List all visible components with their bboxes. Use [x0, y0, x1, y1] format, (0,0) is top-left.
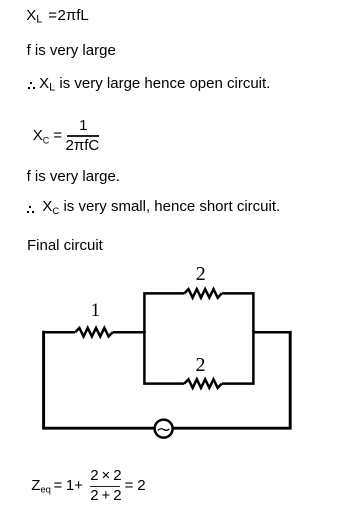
resistor R1 value 1	[75, 328, 112, 337]
text line: XL = 2pi f L	[26, 8, 42, 23]
AC source sine tilde	[158, 429, 170, 431]
label: R1 value 1	[91, 304, 101, 318]
formula Zeq = 1 + (2x2)/(2+2) = 2	[31, 478, 51, 493]
text line: f is very large.	[27, 169, 120, 184]
resistor R2a value 2 (top branch)	[184, 289, 221, 298]
text line: Final circuit	[27, 238, 103, 253]
resistor R2b value 2 (bottom branch)	[184, 379, 221, 388]
therefore symbol 2	[29, 206, 31, 208]
wire: middle-left segment to resistor R1	[44, 331, 76, 334]
wire: outer loop (left vertical, bottom, right vertical)	[44, 331, 291, 428]
label: R2a value 2	[196, 267, 206, 281]
wire: R1 to parallel box	[113, 331, 146, 334]
label: R2b value 2	[196, 358, 206, 372]
AC source V1 circle	[155, 420, 173, 438]
text line: f is very large	[27, 43, 116, 58]
wire: parallel box left side (top stub, left vertical, bottom stub)	[144, 293, 184, 383]
wire: parallel box right side (top stub, right vertical, bottom stub)	[222, 293, 254, 383]
text line: XC is very small, hence short circuit	[42, 199, 280, 214]
text line: XL is very large hence open circuit	[39, 76, 270, 91]
therefore symbol 1	[30, 82, 32, 84]
formula Xc = 1 / 2pi f C	[33, 128, 50, 143]
wire: box to right vertical	[253, 331, 290, 334]
